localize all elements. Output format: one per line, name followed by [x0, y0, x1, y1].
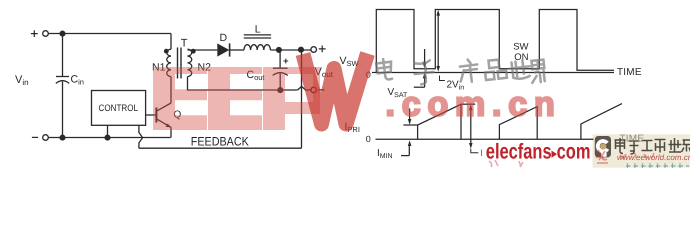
label - output — [318, 89, 324, 91]
axis VSW time — [372, 72, 614, 74]
wire top rail — [48, 33, 171, 35]
wire diode to inductor — [230, 49, 244, 51]
watermark red ghost strokes — [489, 150, 654, 167]
svg-text:TIME: TIME — [617, 67, 642, 78]
label IPRI — [345, 121, 360, 134]
dimension peak current arrow — [469, 104, 478, 152]
label 2Vin — [447, 79, 465, 91]
- input terminal — [43, 135, 49, 141]
wire hop over feedback line — [298, 86, 311, 90]
banner teal slogan row — [626, 163, 689, 168]
svg-text:Vin: Vin — [15, 74, 29, 87]
svg-text:.com.cn: .com.cn — [386, 85, 562, 123]
wire output bottom rail — [188, 77, 298, 90]
label Vout — [315, 66, 334, 79]
waveform IPRI ramp 3 — [581, 104, 622, 140]
transformer T1 core — [178, 48, 182, 79]
watermark chinese char 产 — [458, 58, 479, 83]
transformer T1 primary winding N1 — [167, 49, 171, 76]
svg-text:TIME: TIME — [620, 134, 645, 145]
wire bottom rail — [48, 137, 170, 139]
svg-text:FEEDBACK: FEEDBACK — [191, 135, 250, 149]
svg-text:T: T — [181, 38, 188, 50]
dimension 2Vin arrow — [436, 10, 444, 81]
watermark .com.cn — [386, 85, 562, 123]
label T — [181, 38, 188, 50]
label N2 — [198, 61, 212, 73]
waveform IPRI ramp 1 — [418, 104, 461, 139]
label - input — [32, 136, 38, 138]
label VSAT — [388, 87, 408, 99]
wire emitter to rail — [170, 127, 172, 137]
wire base drive — [146, 114, 157, 116]
svg-text:IMIN: IMIN — [377, 148, 393, 160]
waveform IPRI ramp 2 — [499, 107, 537, 140]
label peak current (hidden by watermark) — [480, 148, 483, 159]
- output terminal — [311, 87, 317, 93]
+ output terminal — [311, 47, 317, 53]
phasing dot secondary — [191, 49, 196, 54]
watermark chinese char 电 — [376, 58, 393, 81]
label D — [220, 32, 228, 44]
node Cin top junction — [60, 31, 65, 36]
phasing dot primary — [164, 49, 169, 54]
label 0 VSW — [366, 69, 371, 79]
wire primary top — [170, 34, 172, 50]
svg-text:elecfans▸com: elecfans▸com — [486, 140, 591, 164]
+ input terminal — [43, 31, 49, 37]
node LC junction — [277, 48, 282, 53]
extension line IMIN level — [403, 124, 417, 126]
label + input — [31, 30, 38, 37]
label + output — [319, 46, 326, 53]
waveform VSW — [376, 10, 614, 73]
label Vin — [15, 74, 29, 87]
wire feedback bottom run — [139, 147, 302, 149]
transformer T1 secondary winding N2 — [188, 49, 192, 76]
wire control ground tap — [107, 125, 109, 137]
label N1 — [152, 61, 166, 73]
svg-text:CONTROL: CONTROL — [99, 102, 139, 113]
svg-text:L: L — [255, 23, 261, 35]
watermark letter E — [153, 67, 207, 130]
node feedback sense junction — [299, 47, 304, 52]
svg-text:Cin: Cin — [71, 74, 84, 87]
label TIME bottom — [620, 134, 645, 145]
node Cout bottom junction — [278, 88, 283, 93]
inductor L1 — [244, 35, 271, 50]
watermark elecfans.com red — [486, 140, 591, 164]
dimension VSAT arrows — [414, 49, 427, 87]
wire feedback sense vertical — [301, 50, 303, 149]
capacitor Cin — [56, 34, 69, 138]
watermark letter E — [208, 67, 262, 130]
label Cout — [247, 69, 266, 82]
label 0 IPRI — [366, 134, 371, 144]
node Cin bottom junction — [60, 135, 65, 140]
watermark chinese char 子 — [413, 60, 434, 85]
label Cin — [71, 74, 84, 87]
label SW ON — [513, 42, 528, 64]
diode D1 — [217, 43, 229, 56]
wire secondary to diode — [188, 49, 218, 51]
svg-text:0: 0 — [366, 134, 371, 144]
banner chinese title 电子工程世界 (approx glyph strokes) — [615, 138, 690, 154]
axis IPRI time — [376, 138, 594, 140]
label TIME top — [617, 67, 642, 78]
camera logo icon — [595, 136, 611, 157]
dimension IMIN arrows — [401, 109, 411, 156]
label L — [255, 23, 261, 35]
watermark letter W — [303, 54, 368, 125]
node control ground junction — [105, 135, 110, 140]
capacitor Cout — [273, 50, 289, 90]
svg-text:I: I — [480, 148, 483, 159]
label CONTROL — [99, 102, 139, 113]
watermark letter P — [263, 67, 320, 130]
watermark chinese char 界 — [530, 60, 546, 83]
EEWorld beige banner bottom-right — [593, 134, 690, 167]
wire feedback hop into control — [139, 125, 143, 148]
svg-text:D: D — [220, 32, 228, 44]
watermark chinese char 世 — [509, 60, 531, 80]
label Q — [174, 110, 182, 121]
label IMIN — [377, 148, 393, 160]
label FEEDBACK — [191, 135, 250, 149]
label VSW — [340, 55, 360, 68]
svg-text:SW: SW — [513, 42, 528, 53]
transistor Q1 — [156, 103, 171, 127]
wire collector to primary — [170, 77, 172, 103]
wire inductor to output — [270, 49, 311, 51]
control block U1 — [92, 91, 146, 126]
banner red url row — [617, 153, 690, 162]
extension line peak level — [461, 103, 475, 105]
watermark chinese char 品 — [484, 59, 507, 80]
